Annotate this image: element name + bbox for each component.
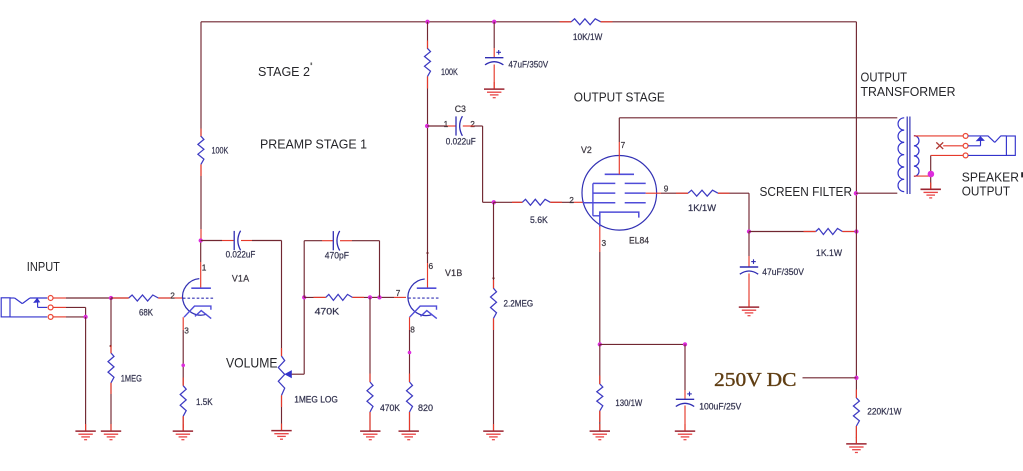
ground 100uF [675, 431, 695, 440]
resistor R 100K stage2 plate load [198, 136, 204, 164]
V2 plate [605, 155, 634, 174]
svg-text:6: 6 [429, 261, 434, 271]
svg-text:V1A: V1A [232, 273, 250, 283]
svg-text:1: 1 [444, 119, 449, 129]
wire sleeve to ground [85, 317, 87, 431]
wire wiper [292, 297, 305, 374]
wire screen corner [718, 193, 749, 231]
node junction wiper grid row [302, 295, 306, 299]
svg-text:3: 3 [184, 325, 189, 335]
node junction 250V [854, 376, 858, 380]
label INPUT [27, 259, 60, 274]
svg-text:8: 8 [410, 324, 415, 334]
wire to 470K [304, 296, 326, 298]
wire left rail [200, 22, 202, 241]
svg-text:470K: 470K [315, 306, 340, 316]
node junction 2.2MEG tap [492, 200, 496, 204]
node junction V1A plate [199, 238, 203, 242]
resistor R 100K stage1 plate load [425, 48, 431, 76]
svg-text:100K: 100K [212, 146, 229, 156]
label 47uF/350V screen [762, 267, 804, 277]
node junction input tip [109, 296, 113, 300]
label 0.022uF coupling [226, 249, 256, 259]
ground 1.5K [173, 431, 193, 440]
potentiometer VOLUME 1MEG LOG [278, 356, 284, 395]
V2 grid3 dashes [593, 182, 646, 184]
svg-text:10K/1W: 10K/1W [573, 32, 603, 42]
wire screen row [749, 231, 816, 233]
wire V1A cathode [182, 317, 184, 430]
svg-text:0.022uF: 0.022uF [226, 249, 256, 259]
pentode V2 envelope [582, 156, 657, 231]
svg-text:2: 2 [170, 291, 175, 301]
label V1A [232, 273, 250, 283]
svg-text:INPUT: INPUT [27, 259, 60, 274]
wire 1K.1W to rail [842, 231, 856, 233]
svg-text:PREAMP STAGE 1: PREAMP STAGE 1 [260, 136, 367, 151]
svg-text:1MEG: 1MEG [121, 373, 142, 383]
label 470K series [315, 306, 340, 316]
wire pin9 out [646, 192, 688, 194]
wire V2 cathode down [599, 227, 601, 345]
wire input sleeve [53, 316, 85, 318]
svg-text:1.5K: 1.5K [196, 397, 213, 407]
label 0.022uF C3 [446, 136, 476, 146]
wire secondary top [914, 135, 963, 137]
svg-text:130/1W: 130/1W [615, 398, 642, 408]
wire mid rail [426, 22, 428, 289]
pin 7 V2 [621, 140, 626, 150]
pin 1 C3 [444, 119, 449, 129]
resistor R 1K/1W screen [688, 190, 718, 196]
svg-text:EL84: EL84 [629, 235, 649, 245]
wire 130 branch [599, 344, 601, 430]
ground psu cap [484, 89, 504, 98]
V2 grid1 dashes [583, 202, 646, 204]
capacitor C 47uF/350V psu [485, 50, 503, 65]
pin 7 V1B [396, 288, 401, 298]
label SCREEN FILTER [760, 184, 853, 199]
node junction mid rail C3 [425, 124, 429, 128]
wire V2 plate to transformer [619, 118, 897, 156]
label 820 [418, 403, 433, 413]
label VOLUME [226, 354, 278, 370]
wire cathode row [600, 343, 685, 345]
label 10K/1W [573, 32, 603, 42]
svg-text:2: 2 [470, 119, 475, 129]
V2 g3 cathode tie [593, 183, 600, 215]
resistor R 470K series [326, 294, 353, 300]
wire tip to 68K [111, 297, 129, 299]
label V2 [581, 145, 592, 155]
resistor R 220K/1W bleeder [853, 398, 859, 426]
svg-text:1: 1 [202, 262, 207, 272]
label 68K [139, 307, 154, 317]
V1A plate [191, 241, 211, 289]
wire grid row to 5.6K [494, 201, 522, 203]
pin 3 V2 [602, 238, 607, 248]
ground screen cap [739, 307, 759, 316]
V1B plate [417, 287, 437, 289]
wire 68K to V1A grid [158, 297, 182, 299]
wire V1B cathode [409, 317, 411, 430]
ground volume pot [271, 431, 291, 440]
svg-text:220K/1W: 220K/1W [867, 407, 902, 417]
label OUTPUT STAGE [574, 89, 665, 104]
input jack tip contact circle [48, 296, 53, 301]
label EL84 [629, 235, 649, 245]
label 1MEG [121, 373, 142, 383]
pin 8 V1B [410, 324, 415, 334]
svg-text:5.6K: 5.6K [530, 215, 549, 225]
node junction screen cap [747, 229, 751, 233]
wire screen cap branch [748, 232, 750, 307]
label 250V DC [714, 369, 797, 391]
V1A grid [183, 297, 214, 299]
no-connect X tap [936, 142, 943, 149]
svg-text:OUTPUT: OUTPUT [861, 69, 908, 84]
wire secondary bottom [914, 155, 963, 188]
resistor R 68K grid stopper [129, 295, 159, 301]
node junction sleeve [83, 315, 87, 319]
label OUTPUT TRANSFORMER [861, 69, 956, 99]
wire plate to coupling cap [201, 240, 234, 242]
svg-text:820: 820 [418, 403, 433, 413]
capacitor C 0.022uF coupling [234, 231, 240, 251]
ground 1MEG [101, 431, 121, 440]
pot wiper arrow [284, 370, 292, 378]
speaker jack ring circle [963, 143, 968, 148]
pin 3 V1A [184, 325, 189, 335]
pin 2 V1A [170, 291, 175, 301]
svg-text:OUTPUT STAGE: OUTPUT STAGE [574, 89, 665, 104]
V2 grid2 dashes [593, 192, 646, 194]
node junction cathode net right [683, 342, 687, 346]
wire C3 left [428, 125, 456, 127]
pin 2 C3 [470, 119, 475, 129]
resistor R 1.5K cathode [180, 386, 186, 417]
transformer primary coil [898, 118, 904, 192]
label STAGE 2 [258, 63, 312, 79]
svg-text:1MEG LOG: 1MEG LOG [294, 394, 338, 404]
resistor R 470K shunt [367, 382, 373, 412]
svg-text:TRANSFORMER: TRANSFORMER [861, 84, 956, 99]
svg-text:100K: 100K [441, 67, 458, 77]
wire input ring [53, 307, 85, 317]
wire C3 right to grid row [463, 126, 494, 202]
svg-text:9: 9 [664, 183, 669, 193]
ground 820 [399, 431, 419, 440]
label 5.6K [530, 215, 549, 225]
wire red pin stubs [86, 22, 931, 444]
capacitor C3 0.022uF [456, 116, 462, 136]
label 47uF/350V psu [508, 59, 549, 69]
svg-text:470pF: 470pF [325, 250, 349, 260]
pin 1 V1A [202, 262, 207, 272]
wire 470pF left leg [304, 241, 333, 298]
wire 47uF top branch [493, 22, 495, 89]
svg-text:V2: V2 [581, 145, 592, 155]
ground 220K [846, 444, 866, 453]
pin 9 V2 [664, 183, 669, 193]
V1A cathode [184, 306, 211, 319]
svg-text:3: 3 [602, 238, 607, 248]
V2 cathode [600, 212, 639, 226]
svg-text:470K: 470K [380, 403, 401, 413]
node junction 470pF right [377, 295, 381, 299]
transformer secondary coil [914, 136, 919, 177]
svg-text:7: 7 [396, 288, 401, 298]
node junction primary return [854, 191, 858, 195]
resistor R 820 cathode [407, 351, 413, 412]
triode V1A envelope [183, 279, 207, 316]
label 470pF [325, 250, 349, 260]
svg-text:47uF/350V: 47uF/350V [508, 59, 549, 69]
label 100uF/25V [699, 401, 742, 411]
wire 470K to V1B [352, 296, 406, 298]
svg-text:V1B: V1B [445, 268, 463, 278]
svg-text:0.022uF: 0.022uF [446, 136, 476, 146]
capacitor C 47uF/350V screen [740, 259, 758, 274]
pin 2 V2 [569, 195, 574, 205]
ground transformer [921, 189, 941, 198]
svg-text:SCREEN FILTER: SCREEN FILTER [760, 184, 853, 199]
wire input tip [53, 297, 111, 299]
wire top supply rail [201, 21, 856, 23]
svg-text:1K.1W: 1K.1W [816, 248, 842, 258]
svg-text:C3: C3 [455, 104, 466, 114]
label C3 [455, 104, 466, 114]
label 130/1W [615, 398, 642, 408]
label 100K mid [441, 67, 458, 77]
triode V1B envelope [408, 279, 432, 316]
svg-text:7: 7 [621, 140, 626, 150]
label 470K shunt [380, 403, 401, 413]
resistor R 1MEG input [108, 345, 114, 383]
wire 470pF right leg [340, 241, 380, 298]
svg-text:68K: 68K [139, 307, 154, 317]
wire 5.6K to V2 grid [550, 201, 584, 203]
wire 470K shunt [369, 297, 371, 430]
speaker jack body [968, 136, 1015, 156]
label 1MEG LOG [294, 394, 338, 404]
label 1K/1W [688, 203, 716, 213]
capacitor C 100uF/25V cathode bypass [676, 392, 694, 407]
ground 2.2MEG [483, 431, 503, 440]
node junction 470K shunt [368, 295, 372, 299]
V1B cathode [410, 306, 437, 319]
node junction rail screen [854, 229, 858, 233]
svg-text:OUTPUT: OUTPUT [962, 183, 1010, 198]
node junction top rail at 100K [425, 20, 429, 24]
V1B grid [408, 297, 439, 299]
node junction secondary gnd [928, 171, 935, 178]
svg-text:100uF/25V: 100uF/25V [699, 401, 742, 411]
wire 2.2MEG branch [493, 202, 495, 430]
resistor R 5.6K grid stopper [522, 199, 550, 205]
resistor R 2.2MEG grid leak [491, 277, 497, 318]
label PREAMP STAGE 1 [260, 136, 367, 151]
node junction cathode [181, 364, 185, 368]
svg-text:VOLUME: VOLUME [226, 354, 278, 370]
resistor R 10K/1W [571, 19, 601, 25]
label 2.2MEG [504, 298, 534, 308]
wire cap to volume [241, 241, 282, 357]
speaker jack tip circle [963, 133, 968, 138]
label 220K/1W [867, 407, 902, 417]
wire 250V DC [803, 377, 857, 379]
label 1.5K [196, 397, 213, 407]
svg-text:1K/1W: 1K/1W [688, 203, 716, 213]
input jack ring contact circle [48, 305, 53, 310]
ground 130 [590, 431, 610, 440]
node junction cathode net left [598, 342, 602, 346]
svg-text:250V DC: 250V DC [714, 369, 797, 391]
wire primary bottom [856, 192, 897, 194]
wire right rail [855, 22, 857, 443]
wire X to ring [943, 145, 963, 147]
input jack sleeve contact circle [48, 314, 53, 319]
ground input jack [75, 431, 95, 440]
wire 100uF branch [684, 344, 686, 430]
svg-text:SPEAKER: SPEAKER [962, 169, 1019, 184]
svg-text:STAGE 2: STAGE 2 [258, 64, 310, 79]
transformer core [907, 117, 910, 195]
svg-text:2.2MEG: 2.2MEG [504, 298, 534, 308]
label SPEAKER OUTPUT [962, 169, 1023, 198]
resistor R 1K.1W [816, 229, 843, 235]
label 1K.1W [816, 248, 842, 258]
wire pot bottom [281, 395, 283, 430]
svg-text:47uF/350V: 47uF/350V [762, 267, 804, 277]
label V1B [445, 268, 463, 278]
label 100K left [212, 146, 229, 156]
pin 6 V1B [429, 261, 434, 271]
resistor R 130/1W cathode [597, 384, 603, 411]
input jack body [1, 298, 47, 317]
ground 470K shunt [360, 431, 380, 440]
speaker jack sleeve circle [963, 153, 968, 158]
svg-text:2: 2 [569, 195, 574, 205]
wire 1MEG branch [110, 298, 112, 431]
capacitor C 470pF feedback [333, 231, 339, 251]
node junction top rail at 47uF [492, 20, 496, 24]
